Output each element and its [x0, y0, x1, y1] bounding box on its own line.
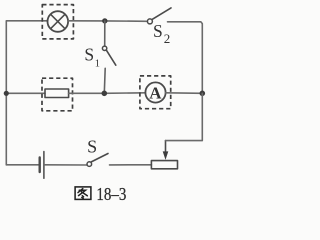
svg-text:S: S [87, 136, 97, 156]
switch S [87, 162, 92, 167]
node: right rail / middle wire junction [200, 91, 206, 97]
battery cell negative plate [39, 158, 41, 173]
wire: middle-left (left rail to resistor) [6, 92, 45, 94]
wire: bottom-left (corner to battery) [6, 164, 39, 166]
resistor R dashed box [42, 78, 73, 111]
wire: slider to right rail [166, 93, 203, 140]
switch S1 [102, 46, 106, 50]
wire: resistor to node B [69, 92, 105, 94]
wire: S2 to top-right corner, down right rail [168, 22, 203, 94]
switch S2 [147, 19, 152, 24]
svg-text:1: 1 [95, 58, 100, 69]
rheostat slider stem [165, 141, 167, 153]
node: left rail / middle wire junction [4, 91, 9, 96]
node B junction dot [102, 91, 108, 97]
wire: S1 branch upper segment [104, 21, 106, 46]
wire: lamp to node A [68, 20, 105, 22]
svg-text:S: S [153, 21, 163, 41]
svg-text:2: 2 [164, 31, 171, 46]
wire: battery to switch S [45, 164, 87, 166]
lamp L dashed box [42, 5, 73, 39]
svg-text:18–3: 18–3 [96, 184, 126, 204]
wire: left rail and top-left segment to lamp [6, 21, 47, 165]
node A junction dot [102, 18, 107, 23]
battery cell positive plate [43, 152, 45, 179]
caption glyph 图 [75, 187, 91, 200]
rheostat R' body [151, 161, 177, 169]
wire: S1 branch lower segment [103, 68, 106, 93]
ammeter A dashed box [140, 76, 171, 109]
wire: node B to ammeter [104, 92, 145, 95]
svg-text:A: A [149, 83, 162, 102]
resistor R [45, 89, 69, 98]
wire: node A to switch S2 [105, 20, 148, 22]
lamp L [48, 11, 69, 32]
wire: switch S to rheostat [110, 164, 152, 166]
wire: ammeter to right rail [166, 92, 203, 95]
rheostat slider arrowhead [163, 151, 169, 160]
ammeter A [145, 82, 165, 102]
svg-text:S: S [84, 44, 94, 64]
